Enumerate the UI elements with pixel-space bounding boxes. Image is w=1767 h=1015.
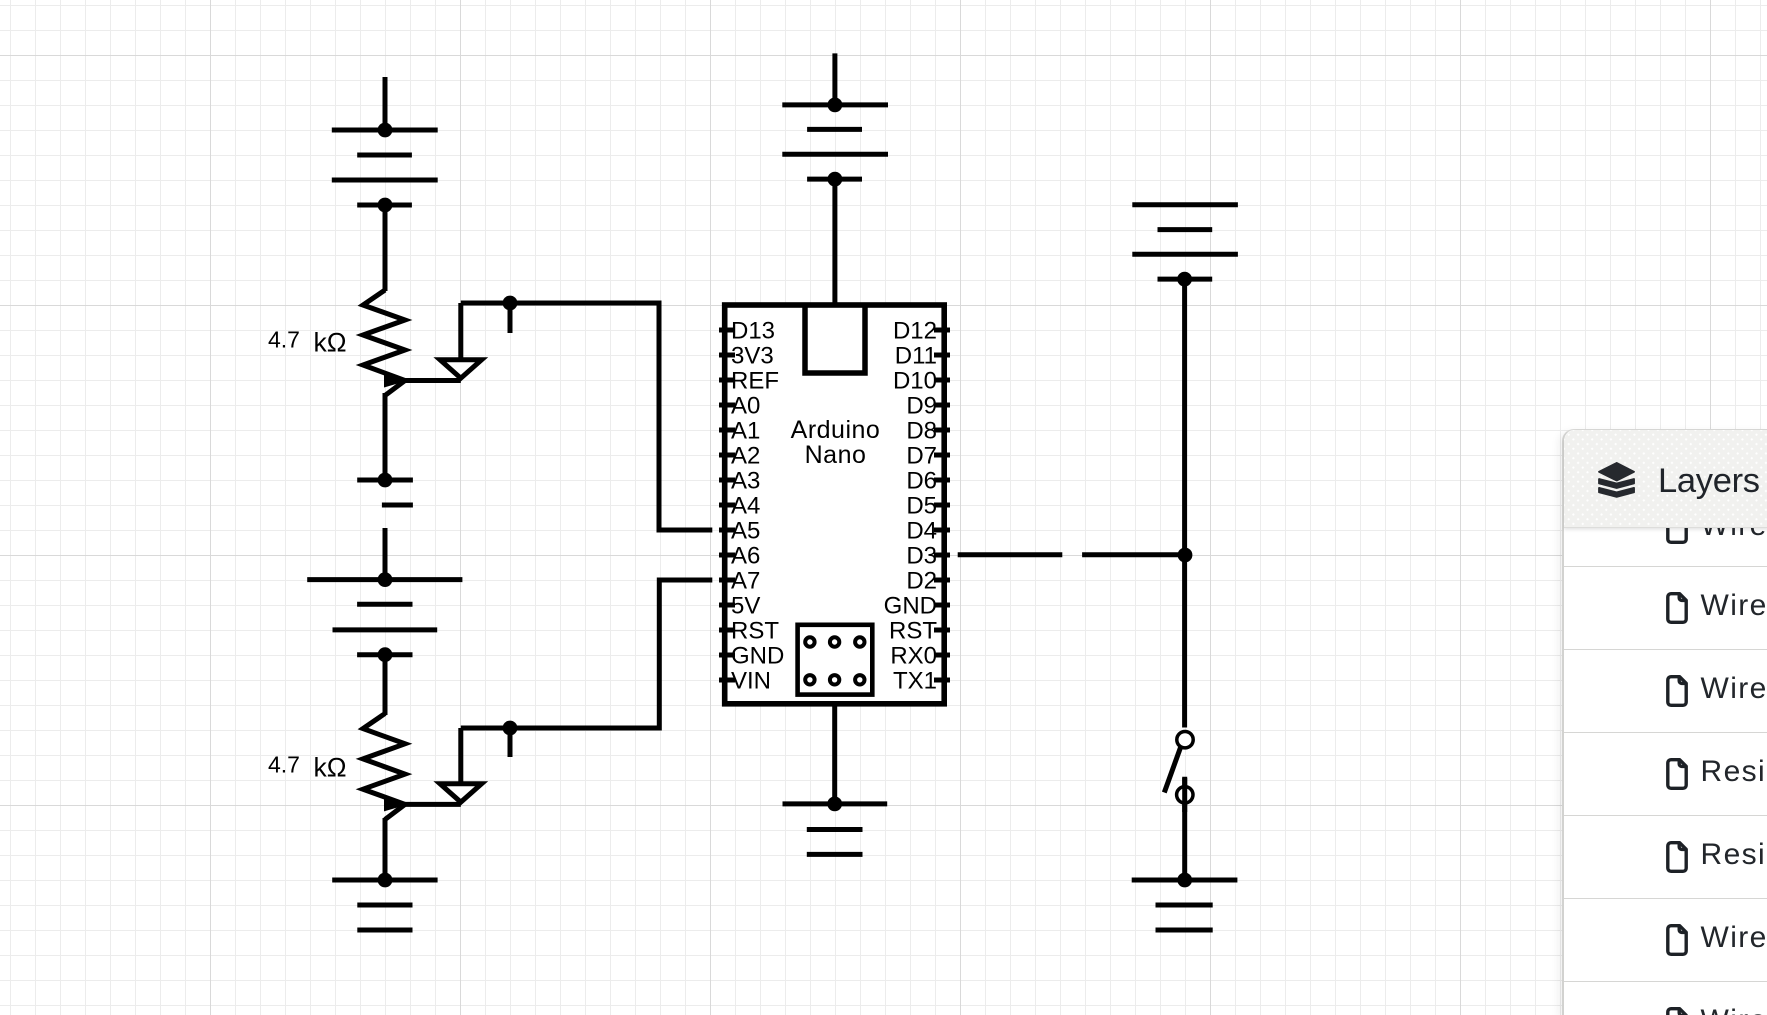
svg-text:D5: D5 xyxy=(906,493,937,520)
svg-text:REF: REF xyxy=(731,368,779,395)
svg-text:RST: RST xyxy=(889,618,937,645)
svg-text:RST: RST xyxy=(731,618,779,645)
svg-text:Nano: Nano xyxy=(805,441,867,469)
svg-text:D2: D2 xyxy=(906,568,937,595)
svg-text:D11: D11 xyxy=(895,343,937,370)
svg-text:kΩ: kΩ xyxy=(314,753,347,783)
svg-text:3V3: 3V3 xyxy=(731,343,774,370)
svg-text:5V: 5V xyxy=(731,593,760,620)
svg-text:D8: D8 xyxy=(906,418,937,445)
svg-text:GND: GND xyxy=(884,593,937,620)
svg-text:VIN: VIN xyxy=(731,668,771,695)
svg-text:D12: D12 xyxy=(893,318,937,345)
svg-text:A3: A3 xyxy=(731,468,760,495)
svg-text:A1: A1 xyxy=(731,418,760,445)
svg-text:D10: D10 xyxy=(893,368,937,395)
svg-text:Arduino: Arduino xyxy=(791,416,881,444)
svg-text:RX0: RX0 xyxy=(890,643,937,670)
svg-text:TX1: TX1 xyxy=(893,668,937,695)
svg-text:D4: D4 xyxy=(906,518,937,545)
svg-text:D6: D6 xyxy=(906,468,937,495)
svg-text:A4: A4 xyxy=(731,493,760,520)
svg-text:D3: D3 xyxy=(906,543,937,570)
svg-text:4.7: 4.7 xyxy=(268,327,300,353)
svg-text:D13: D13 xyxy=(731,318,775,345)
svg-text:A0: A0 xyxy=(731,393,760,420)
svg-text:A7: A7 xyxy=(731,568,760,595)
svg-text:A6: A6 xyxy=(731,543,760,570)
svg-text:A2: A2 xyxy=(731,443,760,470)
svg-text:A5: A5 xyxy=(731,518,760,545)
svg-text:GND: GND xyxy=(731,643,784,670)
svg-text:4.7: 4.7 xyxy=(268,752,300,778)
svg-text:D9: D9 xyxy=(906,393,937,420)
svg-text:kΩ: kΩ xyxy=(314,328,347,358)
svg-text:D7: D7 xyxy=(906,443,937,470)
